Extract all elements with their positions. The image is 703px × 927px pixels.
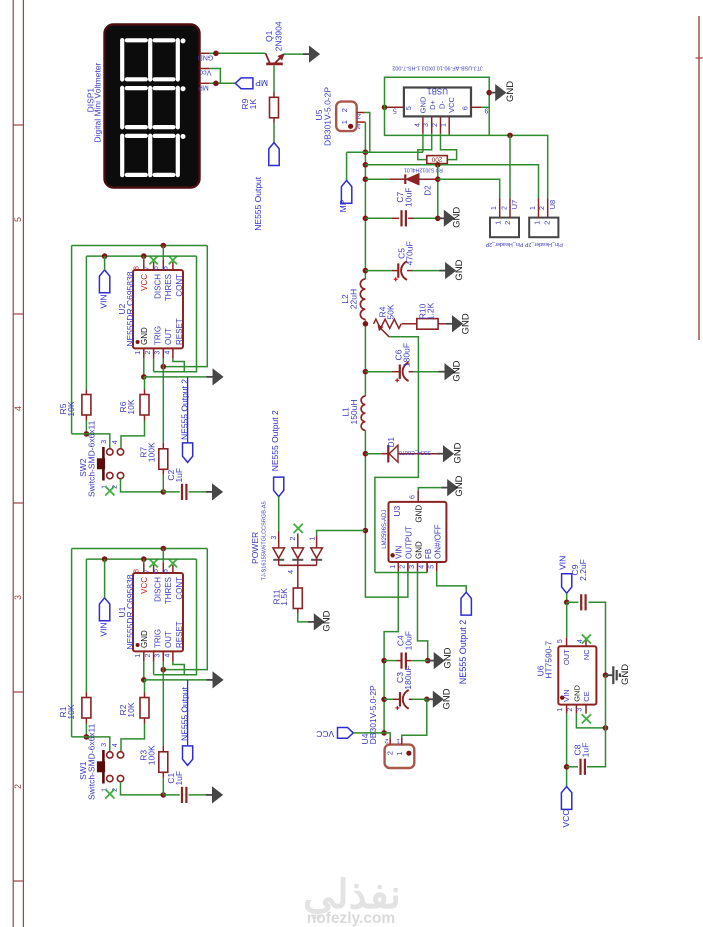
svg-text:1.5K: 1.5K: [279, 588, 289, 606]
no-connect mark: [149, 559, 157, 567]
svg-text:22uH: 22uH: [349, 289, 359, 309]
terminal block U4: [385, 745, 415, 768]
svg-text:10K: 10K: [66, 401, 76, 416]
wire gnd rail right: [402, 699, 427, 738]
wire C6 to gnd: [413, 371, 439, 373]
svg-text:Switch-SMD-6x6x11: Switch-SMD-6x6x11: [86, 420, 96, 497]
wire gnd drop: [488, 93, 490, 136]
ground: [428, 660, 435, 662]
svg-text:VCC: VCC: [140, 577, 149, 594]
pin 4: [422, 116, 424, 133]
pin: [144, 718, 146, 724]
pin: [407, 270, 413, 272]
wire USB pin9 to gnd net: [481, 106, 489, 108]
pin 6: [162, 260, 164, 270]
svg-text:1: 1: [557, 708, 564, 712]
diode D2: [390, 178, 405, 180]
wire U3 vin pin1: [384, 571, 398, 733]
pin: [402, 323, 417, 325]
no-connect mark: [105, 486, 114, 495]
pin: [162, 746, 164, 752]
pin 2: [407, 562, 409, 571]
svg-text:NE555 Output: NE555 Output: [253, 176, 263, 231]
svg-text:GND: GND: [198, 54, 214, 61]
ground: [439, 270, 446, 272]
ground: [207, 679, 214, 681]
svg-text:6: 6: [153, 569, 160, 573]
svg-text:1: 1: [390, 565, 397, 569]
junction: [363, 451, 369, 457]
ground: [207, 376, 214, 378]
pin: [407, 562, 409, 571]
svg-text:GND: GND: [452, 207, 463, 228]
svg-text:3: 3: [423, 123, 430, 127]
pin: [162, 469, 164, 475]
capacitor C5: [397, 263, 399, 277]
svg-text:5: 5: [393, 107, 397, 114]
wire outer top: [72, 245, 208, 247]
svg-text:Q1: Q1: [264, 30, 274, 42]
pin: [397, 660, 402, 662]
wire D2 anode drop: [437, 165, 439, 219]
svg-text:50K: 50K: [386, 304, 396, 319]
wire c9 left: [567, 601, 579, 603]
pin 1: [566, 705, 568, 714]
svg-text:2: 2: [13, 784, 23, 789]
svg-text:GND: GND: [419, 96, 428, 113]
wire D2 to U7 pin1: [438, 179, 500, 198]
svg-text:CE: CE: [582, 691, 591, 701]
svg-text:MP: MP: [198, 84, 209, 91]
wire USB D- to R8: [441, 134, 457, 160]
svg-text:GND: GND: [414, 505, 423, 523]
led POWER: [278, 532, 280, 548]
svg-text:nofezly.com: nofezly.com: [307, 910, 395, 927]
wire gnd down: [587, 675, 606, 767]
svg-text:2: 2: [340, 108, 349, 112]
svg-text:OUT: OUT: [164, 328, 173, 345]
pin 2: [153, 651, 155, 661]
svg-text:VIN: VIN: [562, 689, 571, 702]
svg-text:D1: D1: [387, 436, 396, 447]
pin 2: [509, 198, 511, 217]
connector USB1: [404, 88, 471, 117]
junction: [363, 268, 369, 274]
pin 5: [172, 565, 174, 573]
junction: [603, 725, 609, 731]
net flag NE555 Output: [269, 143, 279, 166]
svg-text:100K: 100K: [146, 745, 156, 765]
wire rail lower: [365, 430, 408, 597]
svg-text:1: 1: [441, 123, 448, 127]
svg-text:LM2596S-ADJ: LM2596S-ADJ: [382, 510, 388, 549]
wire out drop: [162, 359, 164, 367]
wire R9 to flag: [273, 123, 275, 143]
net flag VIN: [99, 598, 109, 621]
pin 9: [471, 106, 481, 108]
svg-text:3: 3: [101, 743, 108, 747]
pin 2: [153, 348, 155, 358]
svg-text:3: 3: [271, 536, 278, 540]
svg-text:D-: D-: [437, 101, 446, 109]
pin: [85, 693, 87, 698]
junction: [435, 162, 441, 168]
svg-text:GND: GND: [443, 647, 454, 668]
svg-text:1uF: 1uF: [174, 771, 184, 786]
terminal block U5: [336, 102, 357, 132]
wire vcc pin: [143, 256, 145, 260]
wire rail to D2: [365, 178, 390, 180]
svg-text:7: 7: [143, 569, 150, 573]
junction: [435, 176, 441, 182]
ground: [206, 491, 213, 493]
pin: [393, 698, 400, 700]
svg-text:2: 2: [501, 206, 508, 210]
ground: [438, 217, 445, 219]
junction: [382, 105, 388, 111]
svg-text:RESET: RESET: [175, 621, 184, 648]
pin: [144, 415, 146, 421]
svg-text:2: 2: [539, 206, 546, 210]
svg-text:DB301V-5.0-2P: DB301V-5.0-2P: [368, 685, 378, 744]
svg-text:NC: NC: [582, 649, 591, 660]
net flag VIN: [99, 270, 109, 293]
resistor R10: [417, 319, 438, 330]
svg-text:8: 8: [134, 569, 141, 573]
pin: [392, 217, 399, 219]
svg-text:VCC: VCC: [447, 97, 456, 113]
wire ra bottom: [85, 421, 87, 434]
junction: [507, 133, 513, 139]
wire c3 right: [412, 698, 427, 700]
display pin GND: [200, 52, 210, 54]
svg-text:6: 6: [462, 106, 469, 110]
svg-text:D2: D2: [424, 185, 433, 196]
diode D1: [382, 453, 388, 455]
wire R11 to gnd: [298, 614, 308, 622]
svg-text:5: 5: [406, 106, 413, 110]
wire sw row: [72, 434, 110, 449]
header U8: [529, 218, 558, 238]
wire right inner: [154, 256, 197, 372]
junction: [141, 556, 147, 562]
capacitor C1: [181, 787, 183, 803]
junction: [84, 431, 90, 437]
svg-text:VIN: VIN: [98, 622, 108, 636]
7-segment digit 1: [122, 38, 185, 79]
junction: [141, 374, 147, 380]
svg-text:4: 4: [164, 351, 171, 355]
pin 2: [547, 198, 549, 217]
wire inner top: [86, 558, 196, 560]
svg-text:U3: U3: [392, 505, 402, 516]
wire USB D+ to R8: [418, 134, 432, 160]
svg-text:TJ-S16155W6TGLCCSRGB-A5: TJ-S16155W6TGLCCSRGB-A5: [261, 501, 267, 580]
svg-text:180uF: 180uF: [401, 343, 411, 367]
wire reset: [173, 662, 184, 675]
resistor R2: [140, 698, 149, 719]
junction: [363, 176, 369, 182]
svg-text:SS54_C8678: SS54_C8678: [399, 449, 431, 455]
wire header U7 pin2 drop: [509, 135, 511, 198]
wire display MP to flag: [209, 82, 235, 84]
pin 1: [448, 116, 450, 133]
junction: [141, 253, 147, 259]
svg-text:2: 2: [357, 112, 361, 119]
junction: [161, 792, 167, 798]
svg-text:2: 2: [145, 351, 152, 355]
wire rail to C6: [365, 371, 392, 373]
svg-text:ON#/OFF: ON#/OFF: [433, 524, 442, 559]
pin: [438, 323, 446, 325]
net flag VCC: [338, 728, 354, 739]
switch SW2: [107, 449, 113, 455]
svg-text:3: 3: [409, 565, 416, 569]
wire out to res: [162, 367, 164, 443]
wire outer top: [72, 548, 208, 550]
svg-text:Vcc: Vcc: [199, 69, 211, 76]
svg-text:GND: GND: [505, 81, 516, 102]
wire to U4 pin2: [384, 733, 390, 738]
resistor R11: [293, 588, 302, 609]
pin 3: [585, 705, 587, 714]
pin: [409, 371, 414, 373]
pin 4: [172, 348, 174, 358]
display pin MP: [200, 82, 210, 84]
7-segment digit 2: [122, 86, 185, 127]
pin 6: [162, 563, 164, 573]
led common bar: [279, 564, 317, 566]
svg-text:OUTPUT: OUTPUT: [405, 526, 414, 559]
wire flag to LED pin3: [278, 497, 280, 532]
svg-text:OUT: OUT: [164, 631, 173, 648]
svg-text:2N3904: 2N3904: [274, 21, 284, 51]
wire rb top: [144, 377, 146, 390]
ground: [446, 323, 453, 325]
svg-text:1: 1: [135, 654, 142, 658]
junction: [213, 81, 219, 87]
pin 5: [172, 262, 174, 270]
svg-text:1: 1: [530, 206, 537, 210]
svg-text:MP: MP: [338, 199, 348, 212]
junction: [363, 149, 369, 155]
pin 3: [162, 348, 164, 358]
ic U1: [133, 573, 183, 651]
no-connect mark: [105, 789, 114, 798]
junction: [161, 489, 167, 495]
svg-text:3: 3: [13, 595, 23, 600]
ground: [437, 453, 444, 455]
svg-text:150uH: 150uH: [349, 399, 359, 424]
resistor R1: [82, 698, 91, 719]
pin 2: [575, 705, 577, 714]
wire cap left: [163, 794, 179, 796]
svg-text:DISCH: DISCH: [153, 577, 162, 602]
junction: [564, 600, 570, 606]
wire Q1 base to R9: [273, 66, 275, 93]
wire USB GND pin: [422, 134, 424, 152]
svg-text:2: 2: [145, 654, 152, 658]
ground: [441, 487, 448, 489]
svg-text:USB1: USB1: [427, 87, 448, 96]
wire right outer: [163, 549, 207, 670]
svg-text:10uF: 10uF: [404, 631, 414, 650]
svg-text:10K: 10K: [126, 702, 136, 717]
wire cap right: [189, 491, 206, 493]
resistor R5: [82, 395, 91, 416]
no-connect mark: [294, 524, 303, 533]
svg-text:2.2uF: 2.2uF: [578, 559, 588, 581]
svg-text:1: 1: [491, 206, 498, 210]
wire LED pin1 to rail: [317, 531, 366, 537]
svg-text:DISCH: DISCH: [153, 274, 162, 299]
capacitor C2: [181, 484, 183, 500]
junction: [381, 658, 387, 664]
net flag NE555 Output 2: [187, 377, 189, 443]
svg-text:200: 200: [431, 156, 442, 163]
capacitor C8: [579, 759, 581, 775]
wire pin2 gnd: [576, 714, 605, 728]
junction: [381, 697, 387, 703]
svg-text:POWER: POWER: [250, 532, 260, 564]
svg-text:GND: GND: [140, 327, 149, 345]
wire gnd pin: [143, 662, 145, 680]
wire sw pin2: [121, 782, 164, 795]
svg-text:NE555 Output: NE555 Output: [179, 686, 189, 741]
svg-text:Switch-SMD-6x6x11: Switch-SMD-6x6x11: [86, 723, 96, 800]
junction: [363, 528, 369, 534]
wire c9 right: [588, 602, 605, 675]
junction: [435, 216, 441, 222]
svg-text:2: 2: [542, 221, 551, 225]
ic U3: [389, 502, 447, 562]
svg-text:4: 4: [288, 570, 295, 574]
pin 4: [172, 651, 174, 661]
pin 1: [397, 562, 399, 571]
wire vcc flag: [353, 732, 384, 734]
resistor R7: [159, 449, 168, 470]
net flag NE555 Output: [187, 680, 189, 746]
resistor R3: [159, 752, 168, 773]
svg-text:JTJ-USB-AF-90-10.0XD3.1-HS-7-0: JTJ-USB-AF-90-10.0XD3.1-HS-7-002: [392, 65, 482, 71]
svg-text:THRES: THRES: [164, 274, 173, 301]
svg-text:OUT: OUT: [562, 649, 571, 665]
pin: [144, 693, 146, 698]
svg-text:VIN: VIN: [98, 294, 108, 308]
net flag MP: [341, 180, 351, 203]
wire pin1 down: [566, 714, 568, 787]
inductor L1: [361, 396, 365, 430]
wire rail to D1: [365, 453, 382, 455]
svg-text:4: 4: [112, 743, 119, 747]
wire inner top: [86, 255, 196, 257]
svg-text:1: 1: [310, 537, 317, 541]
svg-text:NE555DR C695838: NE555DR C695838: [125, 574, 135, 649]
no-connect mark: [582, 634, 591, 643]
svg-text:GND: GND: [454, 475, 465, 496]
wire right inner: [154, 559, 197, 675]
svg-text:NE555 Output 2: NE555 Output 2: [179, 379, 189, 440]
wire trig drop: [153, 359, 155, 372]
wire U5 pin2: [365, 113, 370, 153]
svg-text:GND: GND: [414, 541, 423, 559]
wire ra bottom: [85, 724, 87, 737]
svg-text:GND: GND: [620, 664, 631, 685]
junction: [363, 369, 369, 375]
pin: [85, 718, 87, 724]
7-segment digit 3: [122, 134, 185, 175]
svg-text:5: 5: [163, 266, 170, 270]
ic U2: [133, 270, 183, 348]
svg-text:3: 3: [155, 654, 162, 658]
svg-text:GND: GND: [322, 610, 333, 631]
display DISP1 body: [105, 25, 200, 188]
wire vcc pin: [143, 559, 145, 563]
wire rc bottom: [162, 778, 164, 795]
svg-text:1: 1: [533, 221, 542, 225]
svg-text:FB: FB: [424, 549, 433, 559]
svg-text:470uF: 470uF: [404, 241, 414, 265]
wire rb top: [144, 680, 146, 693]
junction: [425, 658, 431, 664]
svg-text:HT7590-7: HT7590-7: [543, 641, 553, 679]
pin 5: [385, 106, 404, 108]
svg-text:6: 6: [153, 266, 160, 270]
wire rail mid: [364, 319, 366, 396]
svg-text:U8: U8: [548, 200, 557, 210]
pin: [297, 609, 299, 614]
pin 5: [566, 637, 568, 646]
wire trig drop: [153, 662, 155, 675]
potentiometer R4: [374, 319, 402, 328]
svg-text:1K: 1K: [248, 99, 258, 110]
svg-text:4: 4: [112, 440, 119, 444]
inductor L2: [360, 279, 365, 319]
svg-text:GND: GND: [453, 442, 464, 463]
svg-text:CONT: CONT: [175, 274, 184, 297]
svg-text:NE555 Output 2: NE555 Output 2: [458, 620, 468, 685]
wire R4 wiper to FB: [375, 337, 419, 573]
wire rail to C5: [365, 270, 392, 272]
capacitor C3: [399, 692, 401, 706]
net flag NE555 Output 2: [461, 592, 471, 615]
no-connect mark: [149, 256, 157, 264]
wire outer left: [71, 246, 73, 434]
display pin Vcc: [200, 68, 210, 70]
capacitor C4: [400, 653, 402, 669]
svg-text:4: 4: [414, 123, 421, 127]
wire c3 left: [384, 698, 393, 700]
wire reset: [173, 359, 184, 372]
svg-text:5: 5: [557, 639, 564, 643]
wire USB shield loop: [385, 77, 490, 107]
wire U3 onoff pin5: [437, 571, 467, 592]
svg-text:1uF: 1uF: [174, 468, 184, 483]
pin: [273, 92, 275, 97]
svg-text:7: 7: [143, 266, 150, 270]
junction: [363, 162, 369, 168]
svg-text:GND: GND: [140, 630, 149, 648]
no-connect mark: [169, 559, 177, 567]
pin 1: [401, 738, 403, 745]
wire FB link: [375, 572, 427, 574]
wire inner left: [85, 559, 87, 692]
svg-text:GND: GND: [442, 688, 453, 709]
wire net to U8 pin1: [365, 165, 538, 198]
ground: [606, 674, 614, 676]
wire gnd row: [144, 679, 207, 681]
switch SW1: [107, 752, 113, 758]
